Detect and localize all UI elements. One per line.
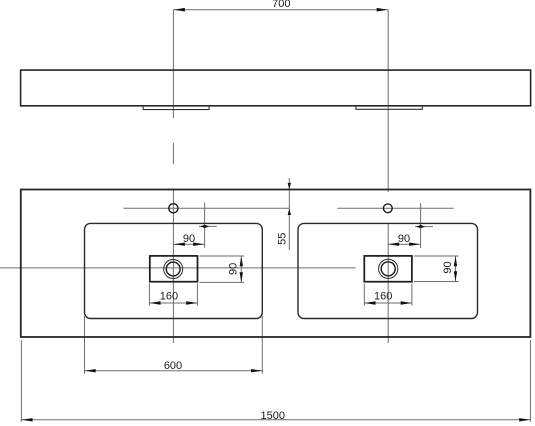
svg-text:160: 160 xyxy=(374,290,392,302)
svg-text:700: 700 xyxy=(272,0,290,10)
svg-text:90: 90 xyxy=(228,263,240,275)
svg-text:600: 600 xyxy=(164,360,182,372)
svg-text:90: 90 xyxy=(183,233,195,245)
svg-text:90: 90 xyxy=(398,233,410,245)
svg-text:160: 160 xyxy=(160,290,178,302)
svg-text:90: 90 xyxy=(442,261,454,273)
svg-text:55: 55 xyxy=(277,233,289,245)
svg-text:1500: 1500 xyxy=(261,410,285,422)
